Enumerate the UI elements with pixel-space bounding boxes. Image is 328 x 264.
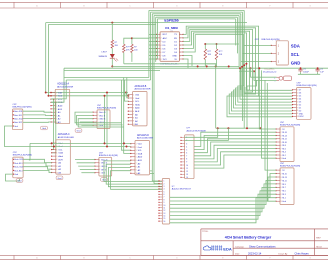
svg-text:3: 3: [186, 143, 187, 145]
svg-text:B3B-PH-K-S(LF)(SN): B3B-PH-K-S(LF)(SN): [13, 155, 32, 157]
svg-text:REV:: REV:: [316, 237, 321, 239]
svg-text:Gnd: Gnd: [42, 128, 46, 130]
svg-text:5VDC: 5VDC: [299, 116, 305, 118]
svg-text:RL6: RL6: [282, 148, 285, 150]
svg-text:D7: D7: [299, 90, 301, 92]
svg-text:B3B-PH-K-S(LF)(SN): B3B-PH-K-S(LF)(SN): [97, 108, 116, 110]
svg-text:Gnd: Gnd: [282, 158, 286, 160]
svg-text:7: 7: [186, 156, 187, 158]
svg-text:8: 8: [186, 159, 187, 161]
svg-text:TITLE:: TITLE:: [202, 231, 208, 233]
svg-text:D5: D5: [299, 96, 301, 98]
svg-text:D1: D1: [299, 107, 301, 109]
svg-text:DC1-0VDC: DC1-0VDC: [265, 69, 276, 71]
svg-text:RL1: RL1: [282, 198, 285, 200]
svg-text:5: 5: [186, 149, 187, 151]
svg-text:Gnd: Gnd: [77, 131, 81, 133]
svg-text:RL2: RL2: [282, 155, 285, 157]
svg-text:RL12: RL12: [282, 139, 287, 141]
svg-text:SDA: SDA: [291, 44, 300, 49]
svg-text:D2: D2: [299, 104, 301, 106]
svg-text:D0: D0: [299, 110, 301, 112]
svg-text:DC-005-04-2.0: DC-005-04-2.0: [263, 71, 277, 73]
svg-text:D6: D6: [299, 93, 301, 95]
svg-text:4CH Smart Battery Charger: 4CH Smart Battery Charger: [225, 236, 272, 240]
svg-text:9: 9: [186, 162, 187, 164]
svg-text:B10B-PH-K-S(LF)(SN): B10B-PH-K-S(LF)(SN): [280, 166, 300, 168]
svg-text:12: 12: [186, 171, 188, 173]
svg-text:B3B-PH-K-S(LF)(SN): B3B-PH-K-S(LF)(SN): [99, 155, 118, 157]
svg-text:RL16: RL16: [282, 132, 287, 134]
svg-text:RL14: RL14: [282, 135, 287, 137]
svg-text:F: F: [269, 6, 270, 8]
svg-text:RL13: RL13: [282, 177, 287, 179]
svg-text:11: 11: [186, 168, 188, 170]
svg-text:Company:: Company:: [235, 246, 245, 248]
svg-text:RL10: RL10: [282, 142, 287, 144]
svg-text:10: 10: [186, 165, 188, 167]
svg-text:RL3: RL3: [282, 194, 285, 196]
svg-text:SMBHCB: SMBHCB: [98, 56, 107, 58]
svg-text:GND: GND: [291, 61, 301, 66]
svg-text:Gnd: Gnd: [18, 181, 22, 183]
svg-text:RL15: RL15: [282, 173, 287, 175]
svg-text:RL11: RL11: [282, 180, 286, 182]
svg-text:RL8: RL8: [282, 145, 285, 147]
svg-text:D1_MINI: D1_MINI: [165, 26, 177, 30]
svg-text:GND S: GND S: [99, 119, 106, 121]
svg-text:GND: GND: [172, 55, 177, 57]
svg-text:4: 4: [186, 146, 187, 148]
svg-text:RL4: RL4: [282, 152, 285, 154]
svg-text:B3B-PH-K-S(LF)(SN): B3B-PH-K-S(LF)(SN): [13, 107, 32, 109]
svg-text:RL7: RL7: [282, 187, 285, 189]
svg-text:Gnd: Gnd: [15, 174, 19, 176]
svg-text:RX: RX: [174, 38, 178, 40]
svg-text:RST: RST: [163, 34, 168, 36]
svg-text:B10B-PH-K-S(LF)(SN): B10B-PH-K-S(LF)(SN): [280, 124, 300, 126]
svg-text:RL5: RL5: [282, 191, 285, 193]
svg-text:SCL: SCL: [291, 52, 300, 57]
svg-text:100uF: 100uF: [303, 72, 309, 74]
svg-text:Gnd: Gnd: [14, 126, 18, 128]
svg-text:D3: D3: [299, 102, 301, 104]
svg-text:6: 6: [186, 153, 187, 155]
svg-text:EDA: EDA: [223, 246, 232, 251]
svg-text:LED?: LED?: [102, 51, 108, 53]
svg-text:Gnd: Gnd: [282, 201, 286, 203]
svg-text:D4: D4: [299, 99, 301, 101]
svg-text:Gnd: Gnd: [58, 178, 62, 180]
svg-text:RL9: RL9: [282, 184, 285, 186]
svg-text:14: 14: [186, 177, 188, 179]
svg-text:Drawn By:: Drawn By:: [279, 253, 289, 255]
svg-text:13: 13: [186, 174, 188, 176]
svg-text:GND: GND: [299, 113, 304, 115]
svg-text:GND S: GND S: [101, 166, 108, 168]
svg-text:F: F: [269, 257, 270, 259]
svg-text:B10B-PH-K-S(LF)(SN): B10B-PH-K-S(LF)(SN): [297, 85, 317, 87]
